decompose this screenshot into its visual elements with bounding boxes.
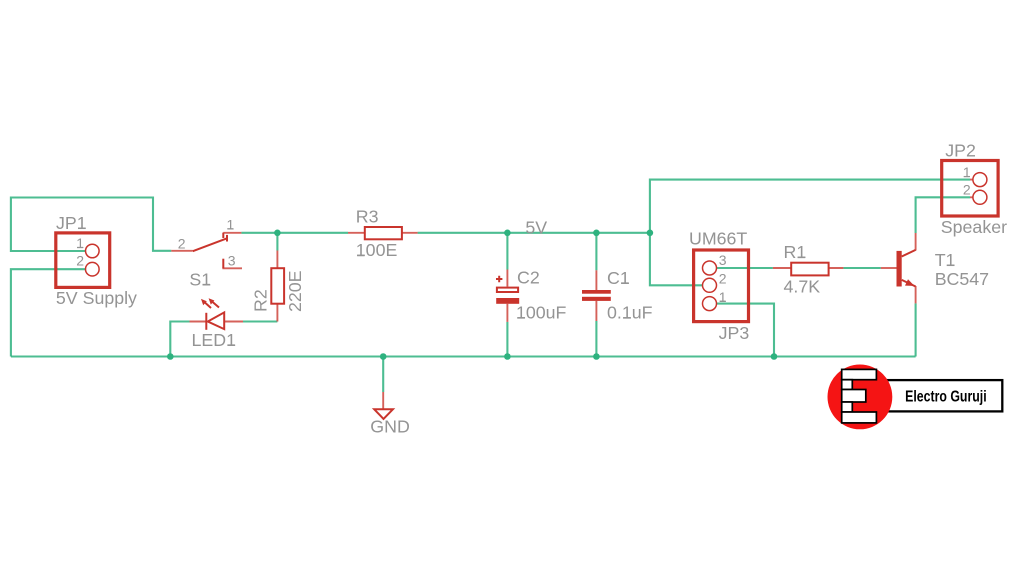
svg-text:4.7K: 4.7K	[784, 277, 821, 297]
node 5V corner	[647, 230, 654, 237]
svg-text:3: 3	[228, 253, 236, 269]
svg-text:3: 3	[719, 252, 727, 268]
svg-text:GND: GND	[370, 417, 410, 437]
wire C2 top lead	[506, 233, 508, 270]
svg-text:R3: R3	[356, 206, 379, 226]
wire C2 bottom lead	[506, 322, 508, 357]
wire JP1 pin2 down to ground rail	[11, 269, 92, 356]
svg-text:S1: S1	[189, 269, 211, 289]
wire T1 emitter to ground rail	[915, 303, 917, 356]
node GND junction	[380, 353, 387, 360]
resistor R2	[271, 251, 284, 322]
svg-text:1: 1	[76, 235, 84, 251]
node LED ground junction	[167, 353, 174, 360]
connector JP2	[942, 161, 998, 217]
wire R3 to 5V corner	[418, 232, 650, 234]
logo text box Electro Guruji	[887, 380, 1002, 411]
svg-text:100E: 100E	[356, 240, 398, 260]
wire switch pin1 to R3 (5V rail left)	[241, 232, 348, 234]
LED1	[190, 298, 244, 330]
svg-text:LED1: LED1	[192, 330, 237, 350]
svg-text:Electro Guruji: Electro Guruji	[905, 388, 987, 405]
logo red circle	[828, 365, 893, 430]
node C2 bottom	[504, 353, 511, 360]
svg-text:JP2: JP2	[945, 140, 976, 160]
transistor T1	[881, 233, 916, 303]
ground symbol GND	[374, 392, 393, 419]
svg-text:1: 1	[227, 216, 235, 232]
svg-text:JP1: JP1	[56, 213, 87, 233]
svg-text:JP3: JP3	[719, 323, 750, 343]
capacitor C1	[582, 270, 611, 321]
svg-text:UM66T: UM66T	[689, 229, 747, 249]
connector JP1	[56, 233, 110, 288]
svg-text:1: 1	[963, 164, 971, 180]
svg-text:C1: C1	[607, 268, 630, 288]
svg-text:100uF: 100uF	[516, 303, 567, 323]
svg-text:BC547: BC547	[935, 269, 989, 289]
svg-text:1: 1	[719, 289, 727, 305]
svg-text:2: 2	[76, 252, 84, 268]
svg-text:2: 2	[963, 182, 971, 198]
resistor R3	[348, 227, 418, 239]
svg-text:5V: 5V	[525, 218, 547, 238]
wire C1 top lead	[595, 233, 597, 270]
svg-text:0.1uF: 0.1uF	[607, 303, 653, 323]
svg-text:2: 2	[178, 235, 186, 251]
switch S1	[171, 233, 242, 269]
wire GND stem	[382, 357, 384, 393]
wire LED left to ground rail	[170, 322, 189, 357]
wire R1 to T1 base	[843, 267, 880, 269]
svg-text:C2: C2	[517, 267, 540, 287]
wire T1 collector to JP2 pin2	[916, 197, 970, 233]
node C1 bottom	[593, 353, 600, 360]
node UM66T pin1 junction	[771, 353, 778, 360]
logo E mark	[842, 369, 877, 423]
node switch/R2 junction	[274, 230, 281, 237]
svg-text:2: 2	[719, 271, 727, 287]
node C2 top	[504, 230, 511, 237]
resistor R1	[773, 263, 844, 276]
svg-text:5V Supply: 5V Supply	[56, 288, 137, 308]
svg-text:R2: R2	[251, 289, 271, 312]
node C1 top	[593, 230, 600, 237]
wire C1 bottom lead	[595, 321, 597, 357]
wire UM66T pin3 to R1	[710, 267, 773, 269]
svg-text:R1: R1	[784, 242, 807, 262]
wire node to R2 top	[276, 233, 278, 251]
svg-text:Speaker: Speaker	[941, 217, 1007, 237]
svg-text:T1: T1	[935, 250, 956, 270]
svg-text:220E: 220E	[285, 270, 305, 312]
wire LED to R2 bottom	[243, 320, 277, 322]
wire ground rail	[11, 355, 916, 357]
wire 5V to JP2 pin1 (top run)	[650, 180, 970, 286]
capacitor C2	[496, 270, 519, 322]
wire JP1 pin1 to switch pin2 (top-left loop)	[11, 198, 171, 252]
wire UM66T pin1 to ground rail	[710, 304, 775, 357]
connector JP3 UM66T	[694, 250, 749, 322]
